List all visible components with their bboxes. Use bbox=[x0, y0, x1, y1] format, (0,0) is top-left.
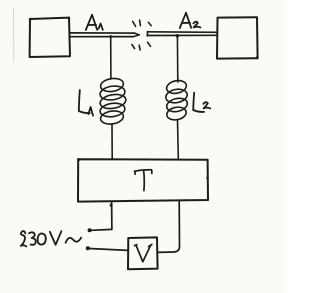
label V (meter) bbox=[135, 244, 152, 261]
scan artifact faint line bbox=[13, 8, 15, 62]
wire L1 to T bbox=[111, 124, 113, 159]
wire T bottom-right down bbox=[175, 202, 180, 252]
node junction right bbox=[176, 34, 180, 38]
wire L2 to T bbox=[177, 120, 180, 159]
transformer T box bbox=[78, 159, 208, 201]
junction dot below T bbox=[110, 204, 113, 207]
supply terminal upper dot bbox=[88, 228, 92, 232]
rod A2 (double line) bbox=[146, 32, 148, 36]
inductor L2 coil bbox=[165, 79, 189, 122]
supply terminal lower dot bbox=[86, 246, 90, 250]
inductor L1 coil bbox=[99, 77, 127, 126]
wire T bottom-left to supply terminal bbox=[92, 202, 112, 231]
rod A1 (double line) bbox=[70, 32, 135, 34]
wire rod A1 to L1 bbox=[110, 37, 112, 79]
wire rod A2 to L2 bbox=[176, 36, 178, 82]
electrode plate right (box) bbox=[217, 17, 258, 58]
label L1 bbox=[79, 90, 93, 116]
label T bbox=[135, 170, 152, 191]
rod A1 pointed tip bbox=[133, 33, 140, 37]
node junction left bbox=[109, 35, 112, 38]
label 230 V ~ bbox=[21, 231, 81, 246]
label A2 bbox=[180, 13, 201, 28]
electrode plate left (box) bbox=[30, 18, 70, 57]
wire supply to voltmeter V bbox=[90, 249, 129, 251]
spark rays bbox=[133, 21, 136, 26]
label A1 bbox=[86, 15, 103, 30]
wire V to T right leg bbox=[158, 251, 175, 253]
voltmeter V box bbox=[128, 237, 158, 269]
label L2 bbox=[193, 93, 210, 112]
